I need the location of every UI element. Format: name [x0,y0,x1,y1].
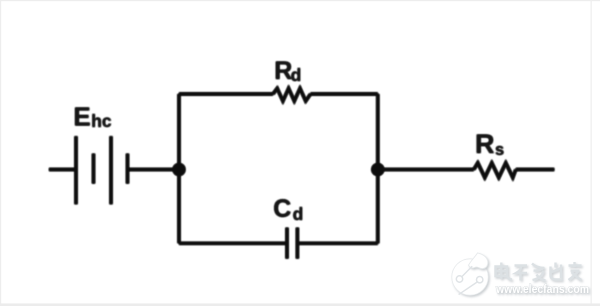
node B junction dot [371,163,384,176]
svg-text:www.elecfans.com: www.elecfans.com [495,282,589,296]
label Ehc [73,101,112,131]
node A junction dot [173,163,186,176]
faint left border edge [0,0,1,306]
wire top rail left of Rd [179,92,273,95]
watermark logo pad right [477,277,483,283]
capacitor Cd plate right [296,228,299,259]
resistor Rd zigzag [273,88,311,101]
wire battery to node A [128,168,180,171]
resistor Rs zigzag [474,163,516,178]
wire Rs right lead [516,168,555,171]
label Rd [274,57,301,85]
battery Ehc short plate 1 [92,154,95,184]
wire bottom rail left of Cd [179,242,287,245]
watermark logo pad left [456,276,462,282]
watermark logo flame [469,253,488,269]
watermark url www.elecfans.com [495,282,589,296]
watermark chinese text 电子发烧友 [496,262,582,281]
circuit drawing [49,57,554,259]
watermark logo trace [459,266,478,294]
faint bottom inner edge line [0,303,600,306]
wire battery left lead [49,168,76,171]
capacitor Cd plate left [285,228,288,259]
faint right inner edge line [591,0,592,303]
label Rs [475,129,504,159]
label Cd [273,195,303,224]
wire bottom rail right of Cd [297,242,377,245]
battery Ehc short plate 2 [126,154,129,184]
faint top border edge [0,0,600,1]
watermark logo circle [452,259,488,295]
wire node B to Rs [378,168,474,171]
wire right vertical branch [376,94,379,243]
battery Ehc long plate 1 [74,136,77,204]
wire left vertical branch [177,94,180,243]
battery Ehc long plate 2 [109,136,112,204]
wire top rail right of Rd [311,92,378,95]
